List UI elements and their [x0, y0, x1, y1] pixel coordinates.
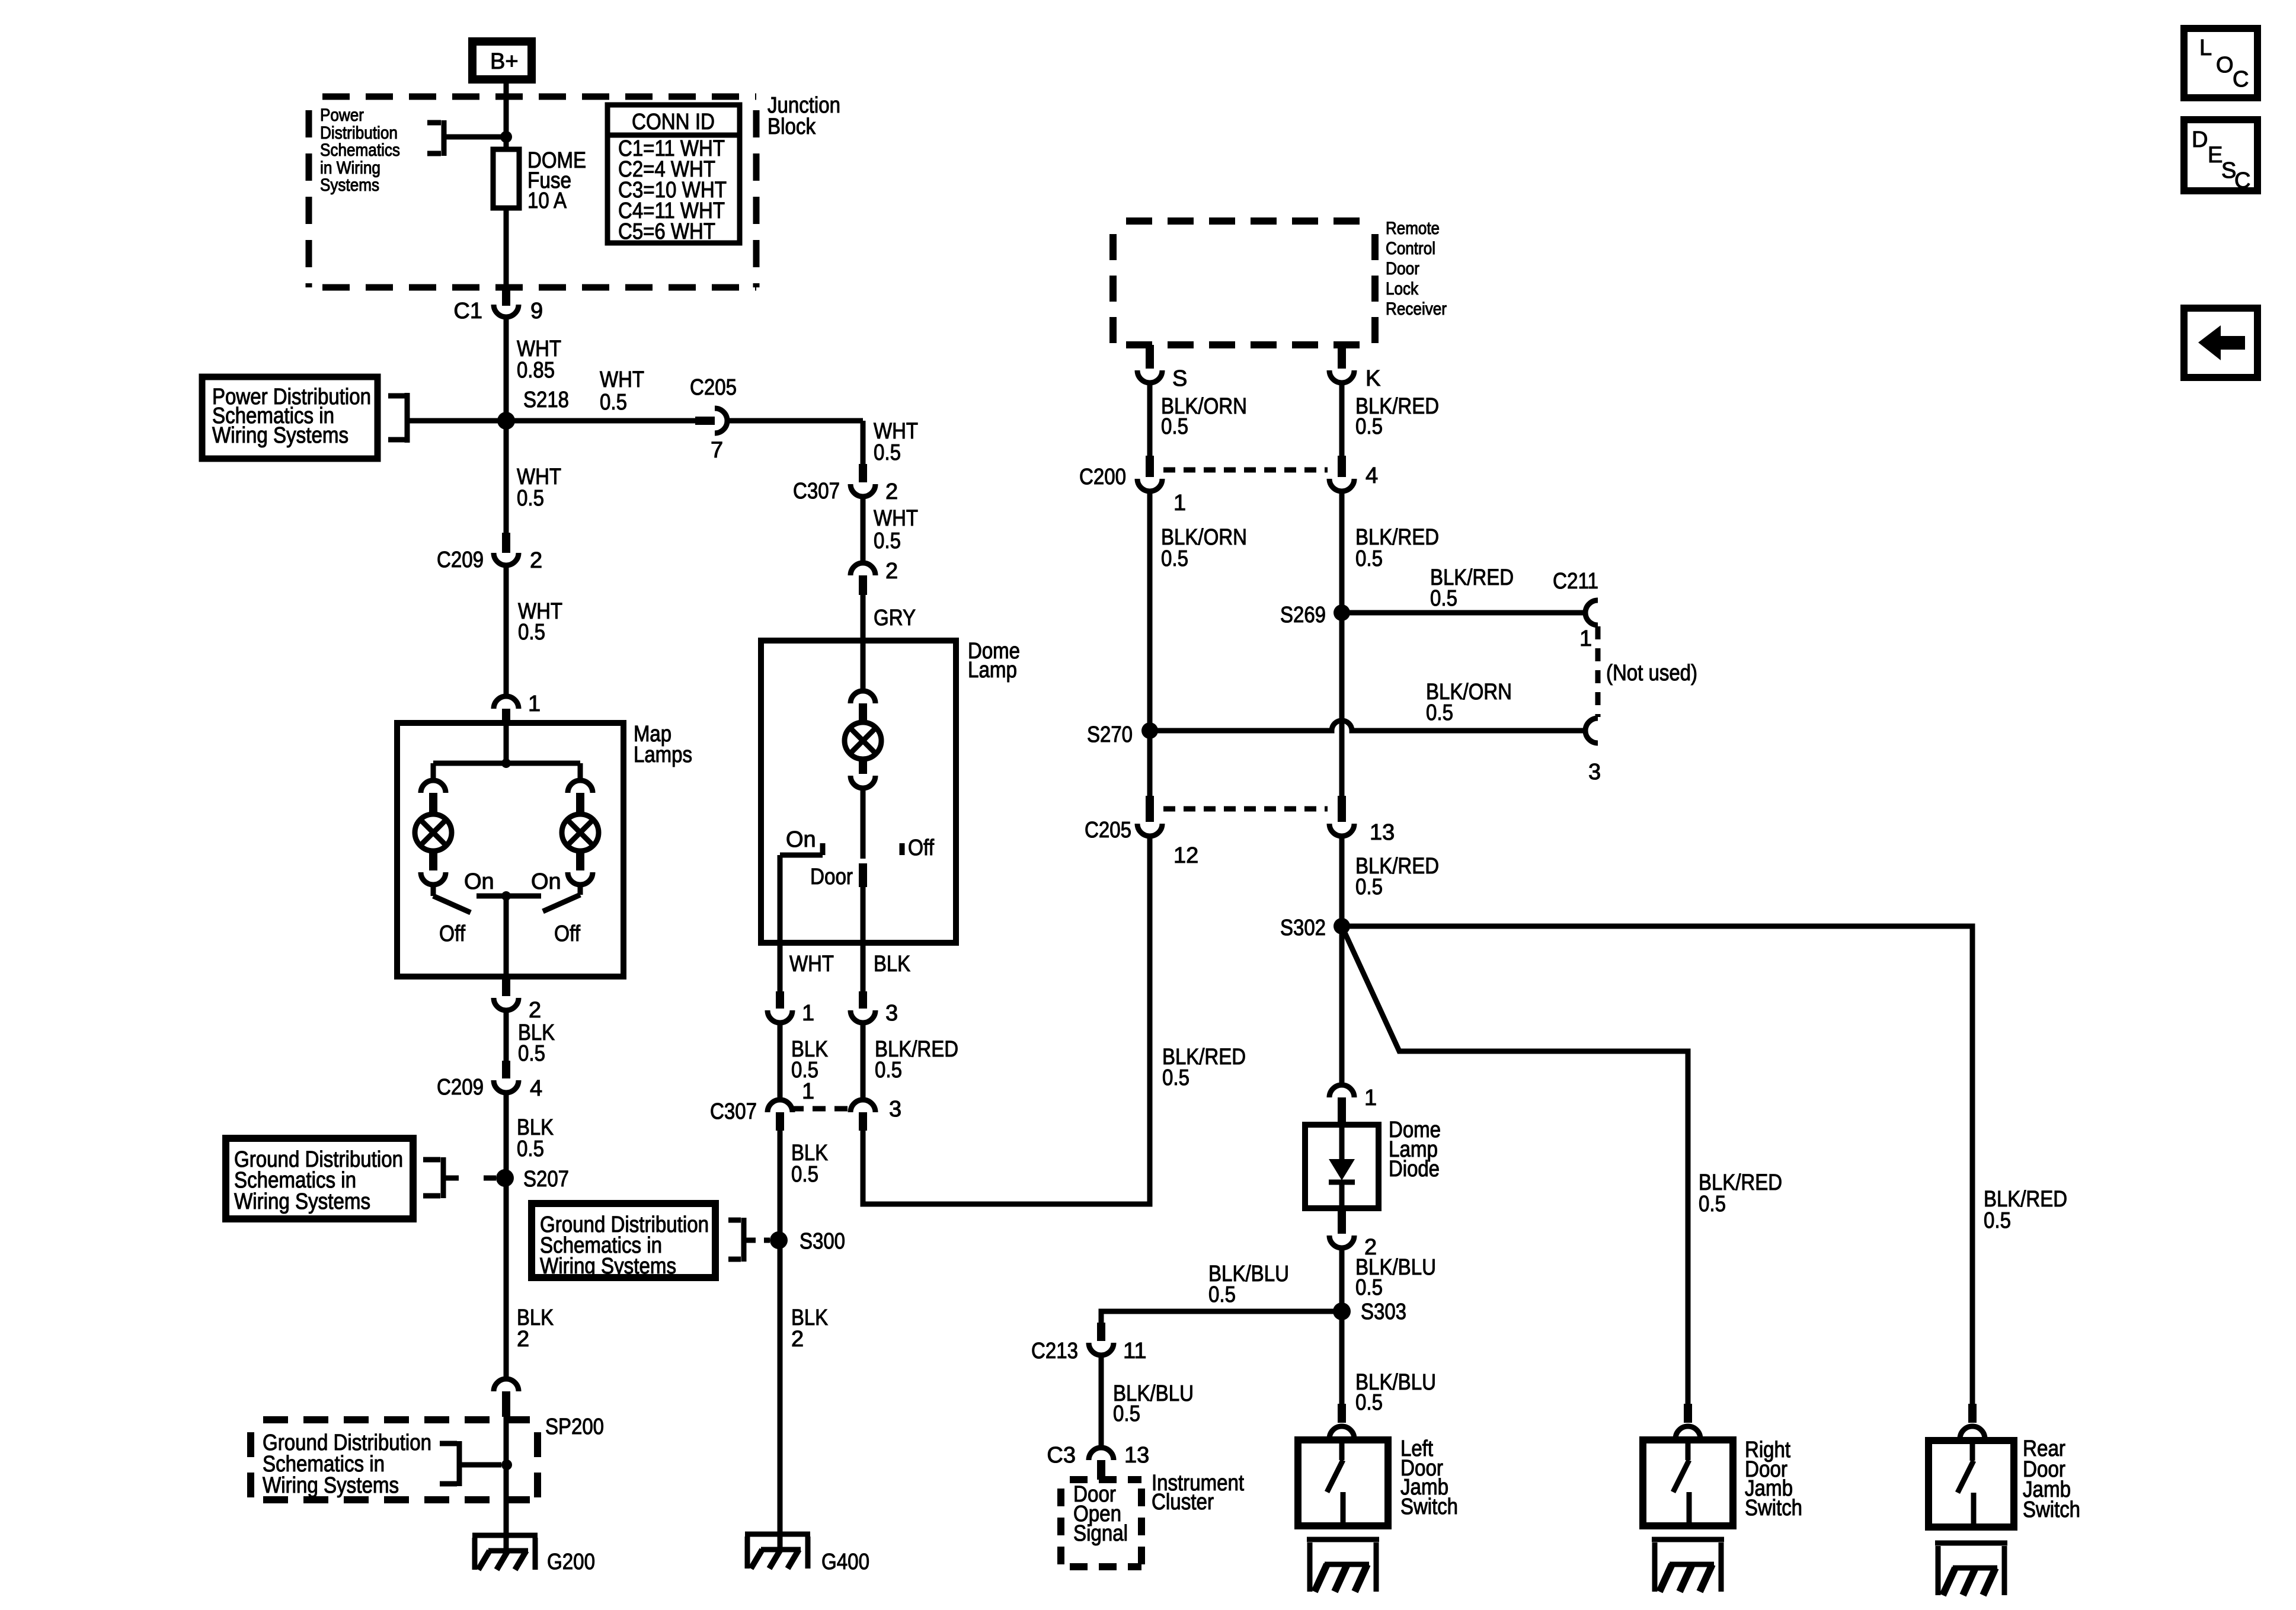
svg-text:2: 2: [517, 1327, 529, 1352]
svg-text:3: 3: [1588, 760, 1601, 785]
svg-text:Off: Off: [439, 921, 465, 946]
svg-text:C209: C209: [437, 1075, 484, 1100]
svg-text:0.5: 0.5: [791, 1162, 818, 1187]
svg-text:1: 1: [1579, 626, 1592, 651]
svg-text:0.5: 0.5: [875, 1058, 902, 1083]
svg-text:S302: S302: [1280, 916, 1326, 940]
svg-text:C205: C205: [690, 375, 737, 400]
svg-text:CONN ID: CONN ID: [632, 110, 715, 135]
svg-text:Signal: Signal: [1073, 1521, 1128, 1546]
svg-text:WHT: WHT: [789, 952, 834, 977]
svg-text:S: S: [1172, 366, 1187, 391]
svg-text:C: C: [2234, 168, 2250, 193]
svg-text:0.5: 0.5: [1355, 1390, 1383, 1415]
svg-text:Cluster: Cluster: [1152, 1490, 1214, 1515]
svg-text:1: 1: [528, 692, 541, 716]
svg-text:0.5: 0.5: [1162, 1065, 1189, 1090]
svg-text:WHT: WHT: [600, 367, 644, 392]
svg-text:2: 2: [791, 1327, 804, 1352]
svg-text:Wiring Systems: Wiring Systems: [212, 423, 348, 448]
svg-text:Control: Control: [1386, 239, 1435, 258]
svg-text:O: O: [2216, 53, 2234, 78]
svg-text:Door: Door: [1386, 259, 1419, 279]
svg-text:0.5: 0.5: [1355, 414, 1383, 439]
svg-text:1: 1: [1173, 491, 1186, 516]
svg-text:0.5: 0.5: [874, 440, 901, 465]
svg-text:Block: Block: [768, 114, 816, 139]
svg-text:S300: S300: [800, 1229, 845, 1254]
svg-text:Lock: Lock: [1386, 279, 1419, 299]
svg-text:Diode: Diode: [1389, 1157, 1440, 1182]
svg-text:C3: C3: [1047, 1443, 1076, 1468]
svg-text:3: 3: [885, 1001, 898, 1026]
svg-text:0.5: 0.5: [1208, 1282, 1236, 1307]
svg-text:GRY: GRY: [874, 606, 916, 630]
svg-text:7: 7: [711, 438, 723, 463]
svg-text:0.5: 0.5: [1355, 1275, 1383, 1300]
svg-text:S218: S218: [523, 388, 569, 412]
svg-text:9: 9: [530, 299, 543, 324]
svg-text:0.5: 0.5: [600, 390, 627, 415]
svg-text:B+: B+: [490, 49, 519, 74]
svg-text:11: 11: [1123, 1339, 1146, 1363]
svg-text:Power: Power: [320, 105, 364, 125]
svg-text:G400: G400: [821, 1550, 869, 1574]
svg-text:C205: C205: [1085, 818, 1131, 843]
svg-text:D: D: [2192, 127, 2208, 152]
svg-text:0.85: 0.85: [517, 358, 555, 383]
svg-text:On: On: [786, 827, 816, 852]
svg-text:3: 3: [889, 1097, 901, 1122]
svg-text:C1: C1: [453, 299, 482, 324]
svg-text:L: L: [2199, 36, 2212, 60]
svg-text:Off: Off: [554, 921, 580, 946]
svg-text:C: C: [2233, 67, 2249, 92]
svg-text:G200: G200: [547, 1550, 595, 1574]
svg-text:0.5: 0.5: [1699, 1192, 1726, 1217]
svg-text:0.5: 0.5: [1113, 1401, 1140, 1426]
svg-text:On: On: [464, 869, 494, 894]
svg-text:S269: S269: [1280, 603, 1326, 628]
svg-text:Lamp: Lamp: [968, 658, 1017, 683]
svg-text:0.5: 0.5: [1984, 1208, 2011, 1233]
svg-text:C200: C200: [1079, 465, 1126, 489]
svg-text:2: 2: [530, 548, 542, 573]
svg-text:On: On: [531, 869, 561, 894]
svg-text:2: 2: [885, 559, 898, 584]
svg-text:0.5: 0.5: [518, 620, 545, 645]
svg-text:Remote: Remote: [1386, 219, 1440, 238]
svg-text:C211: C211: [1553, 569, 1598, 594]
svg-text:Receiver: Receiver: [1386, 299, 1447, 319]
svg-text:0.5: 0.5: [1426, 700, 1453, 725]
svg-text:C5=6 WHT: C5=6 WHT: [618, 219, 715, 244]
svg-text:1: 1: [1364, 1086, 1377, 1110]
svg-text:0.5: 0.5: [517, 486, 544, 511]
svg-text:C307: C307: [793, 479, 840, 504]
svg-text:WHT: WHT: [874, 506, 918, 531]
svg-text:Lamps: Lamps: [634, 742, 692, 767]
svg-text:0.5: 0.5: [1161, 414, 1188, 439]
svg-text:BLK: BLK: [874, 952, 910, 977]
svg-text:0.5: 0.5: [1161, 546, 1188, 571]
svg-text:Switch: Switch: [1745, 1496, 1802, 1521]
svg-text:0.5: 0.5: [1355, 546, 1383, 571]
svg-text:SP200: SP200: [545, 1414, 604, 1439]
svg-text:4: 4: [1366, 463, 1378, 488]
svg-text:C307: C307: [710, 1099, 757, 1124]
svg-text:Schematics: Schematics: [320, 140, 400, 160]
svg-text:0.5: 0.5: [1355, 875, 1383, 900]
svg-text:Switch: Switch: [1400, 1494, 1458, 1519]
svg-text:0.5: 0.5: [517, 1137, 544, 1161]
svg-text:S207: S207: [523, 1167, 569, 1192]
svg-text:S303: S303: [1361, 1299, 1406, 1324]
svg-text:Wiring Systems: Wiring Systems: [234, 1189, 370, 1214]
svg-text:4: 4: [530, 1076, 542, 1101]
svg-text:0.5: 0.5: [874, 529, 901, 553]
svg-text:C213: C213: [1031, 1339, 1078, 1363]
svg-text:13: 13: [1370, 820, 1395, 845]
svg-text:Door: Door: [810, 865, 853, 889]
svg-text:Wiring Systems: Wiring Systems: [263, 1473, 399, 1498]
svg-text:2: 2: [529, 998, 541, 1023]
svg-text:Off: Off: [908, 836, 934, 860]
svg-text:E: E: [2208, 143, 2223, 168]
svg-text:0.5: 0.5: [1430, 586, 1457, 611]
svg-text:10 A: 10 A: [527, 188, 567, 213]
svg-text:1: 1: [802, 1079, 814, 1104]
svg-text:Systems: Systems: [320, 175, 379, 195]
svg-text:(Not used): (Not used): [1606, 661, 1697, 686]
svg-text:K: K: [1366, 366, 1380, 391]
svg-text:0.5: 0.5: [518, 1041, 545, 1066]
svg-text:C209: C209: [437, 548, 484, 572]
svg-text:2: 2: [885, 479, 898, 504]
svg-text:1: 1: [802, 1001, 814, 1026]
svg-text:13: 13: [1124, 1443, 1149, 1468]
svg-text:12: 12: [1173, 843, 1198, 868]
svg-text:Switch: Switch: [2023, 1497, 2080, 1522]
svg-text:S270: S270: [1087, 722, 1133, 747]
svg-text:Wiring Systems: Wiring Systems: [540, 1254, 676, 1279]
